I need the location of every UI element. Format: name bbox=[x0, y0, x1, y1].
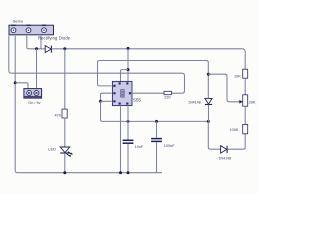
svg-text:555: 555 bbox=[133, 98, 141, 103]
connector J2 battery block bbox=[24, 89, 42, 99]
svg-text:Servo: Servo bbox=[13, 18, 24, 23]
node cap2 top junction bbox=[155, 120, 158, 123]
diode D1 rectifying bbox=[45, 46, 51, 53]
wire 555 gnd pin to rail bbox=[120, 107, 122, 173]
wire pot to 100K bbox=[244, 106, 246, 124]
diode D3 1N4148 vertical bbox=[205, 98, 212, 104]
wire branch to battery left pin bbox=[15, 83, 28, 89]
capacitor C2 100nF bbox=[151, 139, 162, 142]
wire 555 discharge pin to cap1 bbox=[127, 107, 129, 140]
wire 555 pin4 area to top loop (output loop) bbox=[98, 61, 209, 99]
wire wiper branch to potentiometer bbox=[208, 74, 239, 102]
wire VCC vertical to 555 pin8 bbox=[127, 49, 129, 81]
capacitor C1 10nF bbox=[123, 140, 134, 143]
resistor R1 470 bbox=[62, 109, 67, 118]
wire down to battery right pin bbox=[36, 49, 38, 89]
wire 555 output pin to 220 bbox=[132, 92, 164, 94]
svg-text:LED: LED bbox=[48, 147, 56, 152]
wiper arrowhead bbox=[239, 100, 243, 104]
potentiometer R4 20K bbox=[243, 95, 248, 106]
wire LED column upper bbox=[64, 49, 66, 109]
wire diode bottom to junction bbox=[208, 105, 210, 122]
resistor R5 100K bbox=[243, 124, 248, 133]
svg-text:20K: 20K bbox=[249, 100, 256, 104]
node cap1 rail junction bbox=[127, 171, 130, 174]
wire 10K to pot bbox=[244, 78, 246, 95]
diode D4 1N4148 horizontal bbox=[221, 146, 228, 153]
node LED column junction bbox=[63, 47, 66, 50]
connector J1 Servo 3-pin terminal block bbox=[9, 25, 54, 35]
wire resistor to LED bbox=[64, 118, 66, 147]
wire servo signal (pin1) down then long run east at y=73.2 bbox=[9, 36, 115, 73]
node cap1 top junction bbox=[127, 120, 130, 123]
wire cap2 column upper bbox=[156, 121, 158, 137]
svg-text:220: 220 bbox=[164, 96, 170, 100]
wire V+ rail east from diode to right column bbox=[51, 49, 245, 69]
svg-text:10nF: 10nF bbox=[135, 145, 144, 149]
wire down and east at y=121.4 bbox=[101, 101, 209, 121]
node VCC-to-555 junction bbox=[127, 47, 130, 50]
svg-text:Rectifying Diode: Rectifying Diode bbox=[38, 35, 71, 40]
svg-text:470: 470 bbox=[55, 113, 62, 118]
node reset tie junction bbox=[127, 68, 130, 71]
wire signal continues east then down to 220 resistor bbox=[115, 73, 185, 93]
node ground branch junction bbox=[14, 81, 17, 84]
wire cap1 to rail bbox=[127, 144, 129, 173]
node LED ground junction bbox=[63, 171, 66, 174]
svg-text:Gn / 9v: Gn / 9v bbox=[28, 101, 40, 105]
node trigger/threshold junction bbox=[99, 100, 102, 103]
wire servo ground (pin2) down to bottom rail bbox=[15, 36, 162, 173]
node battery + junction bbox=[35, 47, 38, 50]
resistor R2 220 bbox=[164, 91, 172, 94]
wire into 555 pin2 bbox=[101, 100, 112, 102]
svg-text:1N4148: 1N4148 bbox=[188, 100, 201, 104]
wire cap2 to rail bbox=[156, 142, 158, 173]
wire diode to 100K bottom bbox=[227, 134, 245, 149]
wire spare pin stub bbox=[40, 36, 42, 49]
node output/diode/wiper junction bbox=[207, 73, 210, 76]
svg-text:100K: 100K bbox=[230, 128, 239, 132]
wire servo V+ (pin3) down then east at y=48.8 to rectifying diode bbox=[27, 36, 45, 49]
node diode bottom junction bbox=[207, 120, 210, 123]
wire reset pin hook bbox=[121, 70, 129, 81]
wire right junction down to bottom loop bbox=[208, 121, 220, 149]
node gnd rail junction bbox=[119, 171, 122, 174]
op IC U1 555 timer bbox=[112, 81, 132, 105]
LED D2 bbox=[60, 147, 72, 157]
resistor R3 10K bbox=[243, 69, 248, 78]
wire 555 trigger pin corner bbox=[101, 93, 112, 101]
svg-text:100nF: 100nF bbox=[164, 144, 175, 148]
svg-text:10K: 10K bbox=[234, 74, 241, 78]
wire LED to ground rail bbox=[64, 153, 66, 173]
svg-text:1N4148: 1N4148 bbox=[219, 157, 232, 161]
